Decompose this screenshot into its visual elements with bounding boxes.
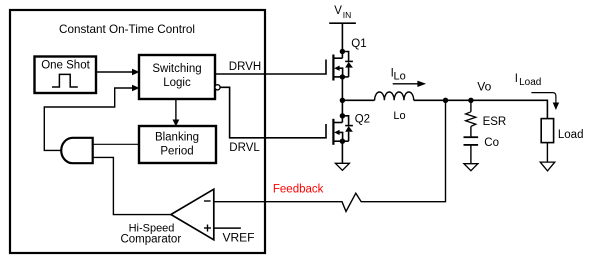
pulse symbol xyxy=(52,74,78,87)
output wire xyxy=(414,99,548,101)
svg-text:Load: Load xyxy=(519,77,541,88)
one-shot block box xyxy=(35,57,97,94)
svg-text:VREF: VREF xyxy=(223,230,255,244)
wire SW node to inductor xyxy=(342,99,374,101)
svg-text:Co: Co xyxy=(484,137,499,149)
transistor Q1 xyxy=(333,52,353,81)
VREF wire xyxy=(214,227,241,229)
blanking period box xyxy=(139,126,216,163)
svg-text:DRVL: DRVL xyxy=(229,142,260,154)
svg-text:Q2: Q2 xyxy=(355,113,370,125)
wire comparator output to and-gate input xyxy=(93,157,171,214)
DRVL wire with inverter bubble xyxy=(215,85,220,90)
node SW xyxy=(340,98,345,103)
inductor Lo xyxy=(375,92,414,100)
resistor ESR xyxy=(470,100,472,112)
DRVH wire xyxy=(215,60,326,75)
svg-text:IN: IN xyxy=(343,10,352,20)
wire switching logic to blanking period xyxy=(175,99,177,120)
wire load to ground xyxy=(546,143,548,163)
svg-text:Q1: Q1 xyxy=(351,38,366,50)
capacitor Co xyxy=(464,136,479,138)
svg-text:Logic: Logic xyxy=(163,77,191,89)
minus input xyxy=(204,200,211,202)
ground xyxy=(464,164,478,171)
svg-text:Lo: Lo xyxy=(394,71,406,83)
wire and-gate output to switching logic input xyxy=(44,88,132,150)
wire Co to ground xyxy=(470,145,472,164)
current arrow ILoad xyxy=(531,93,556,103)
node Vo junction xyxy=(468,98,473,103)
svg-text:One Shot: One Shot xyxy=(41,60,90,72)
wire Q1 source to SW node xyxy=(341,77,343,123)
ground xyxy=(540,162,555,171)
and-gate (mirrored, output left) xyxy=(61,138,92,163)
resistor Load xyxy=(541,119,553,143)
switching logic box xyxy=(139,55,215,99)
wire Q2 source to ground xyxy=(341,141,343,163)
svg-text:Switching: Switching xyxy=(152,63,201,75)
svg-text:Lo: Lo xyxy=(393,110,405,122)
svg-text:Vo: Vo xyxy=(477,80,491,94)
svg-text:Blanking: Blanking xyxy=(155,132,199,144)
current arrow ILo xyxy=(393,83,418,85)
svg-text:Constant On-Time Control: Constant On-Time Control xyxy=(59,23,195,36)
plus input xyxy=(204,227,211,229)
wire VIN to Q1 drain xyxy=(341,23,343,58)
feedback wire with break squiggle xyxy=(214,100,446,211)
svg-text:I: I xyxy=(515,73,518,85)
wire ESR to Co xyxy=(470,126,472,137)
svg-text:Load: Load xyxy=(558,129,584,141)
svg-text:DRVH: DRVH xyxy=(229,61,261,73)
svg-text:V: V xyxy=(334,5,342,17)
transistor Q2 xyxy=(333,116,353,145)
svg-text:ESR: ESR xyxy=(483,116,507,128)
wire one-shot to switching logic xyxy=(96,71,133,73)
node feedback junction xyxy=(443,98,448,103)
svg-text:Period: Period xyxy=(160,146,193,158)
wire blanking period to and-gate input xyxy=(93,143,139,145)
svg-text:Comparator: Comparator xyxy=(120,233,181,245)
op-amp hi-speed comparator xyxy=(171,189,214,240)
VIN rail xyxy=(329,22,356,24)
ground xyxy=(335,163,349,170)
wire output to load xyxy=(546,100,548,119)
control block outer box xyxy=(10,10,265,253)
svg-text:Feedback: Feedback xyxy=(273,184,324,196)
